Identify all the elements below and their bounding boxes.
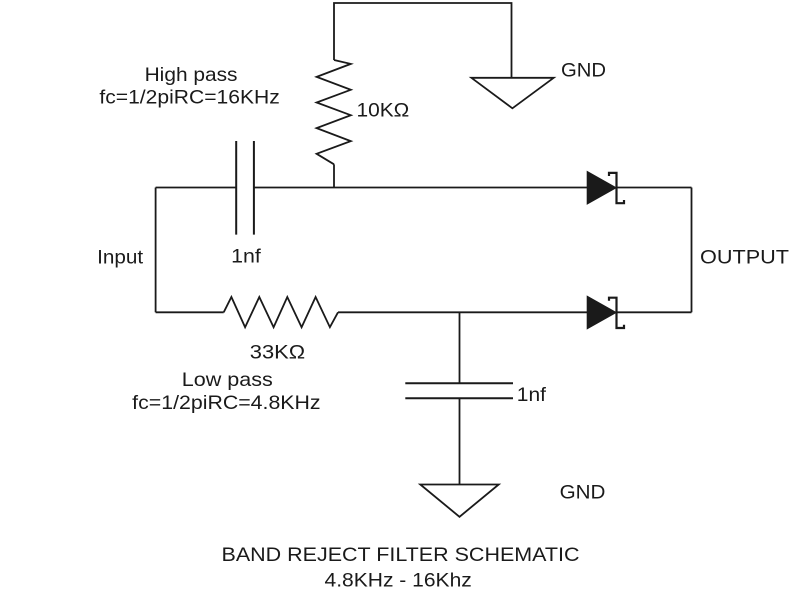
- ground GND1 top right: [471, 78, 553, 109]
- svg-text:GND: GND: [560, 482, 606, 504]
- svg-text:BAND REJECT FILTER SCHEMATIC: BAND REJECT FILTER SCHEMATIC: [222, 544, 580, 566]
- svg-text:fc=1/2piRC=4.8KHz: fc=1/2piRC=4.8KHz: [132, 392, 320, 414]
- svg-text:Low pass: Low pass: [182, 369, 273, 391]
- capacitor C1 plates: [236, 141, 254, 235]
- wire top loop from R1 top to ground: [334, 3, 512, 77]
- wire node B down to C2: [459, 312, 461, 383]
- svg-text:Input: Input: [97, 247, 144, 269]
- wire bottom branch through node B to diode D2 anode: [338, 311, 588, 313]
- wire top branch through node A to diode D1 anode: [254, 187, 588, 189]
- diode D2 (schottky) bottom: [588, 297, 616, 329]
- svg-text:GND: GND: [561, 59, 606, 81]
- diode D1 (schottky) top: [588, 172, 616, 204]
- svg-text:OUTPUT: OUTPUT: [700, 247, 789, 269]
- ground GND2 bottom: [420, 485, 498, 517]
- wire D1 cathode to right rail: [617, 187, 692, 189]
- wire bottom branch left segment: [156, 311, 224, 313]
- resistor R2 33K horizontal zigzag: [224, 297, 338, 327]
- svg-text:4.8KHz - 16Khz: 4.8KHz - 16Khz: [325, 569, 472, 591]
- wire right rail: [691, 188, 693, 313]
- svg-text:10KΩ: 10KΩ: [357, 100, 410, 122]
- wire D2 cathode to right rail: [617, 311, 692, 313]
- svg-text:1nf: 1nf: [517, 384, 547, 406]
- resistor R1 10K vertical zigzag: [317, 60, 351, 164]
- svg-text:1nf: 1nf: [231, 246, 261, 268]
- wire left rail: [155, 188, 157, 313]
- svg-text:High pass: High pass: [145, 64, 238, 86]
- svg-text:fc=1/2piRC=16KHz: fc=1/2piRC=16KHz: [99, 86, 279, 108]
- wire top branch left segment: [156, 187, 237, 189]
- wire C2 bottom to ground: [459, 398, 461, 484]
- svg-text:33KΩ: 33KΩ: [250, 342, 305, 364]
- wire R1 bottom to node A: [333, 164, 335, 187]
- capacitor C2 plates: [405, 383, 513, 398]
